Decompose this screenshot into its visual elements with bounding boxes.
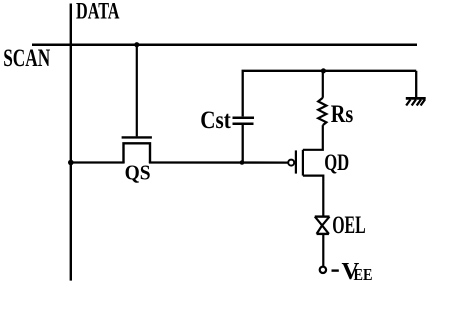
transistor QD gate bubble [288,160,294,166]
svg-text:QD: QD [324,150,349,175]
wire Cst top vertical and top rail to ground [243,71,417,117]
node junction DATA to row wire [68,160,74,166]
svg-text:DATA: DATA [76,0,120,24]
capacitor Cst top plate [233,116,255,119]
ground bar [406,97,426,100]
svg-text:OEL: OEL [332,210,366,239]
node VEE open terminal circle [320,267,326,273]
wire Rs bottom vertical to QD drain [303,125,323,150]
diode OEL lower triangle [317,225,329,234]
svg-text:Cst: Cst [200,107,231,134]
wire Cst bottom vertical [242,125,244,163]
transistor QD gate plate [295,150,297,173]
diode OEL top bar [315,215,330,217]
ground hatch marks [406,100,425,106]
wire row left (DATA to QS) [71,161,125,163]
wire SCAN horizontal line [32,43,417,46]
capacitor Cst bottom plate [233,122,254,125]
diode OEL bottom bar [317,233,329,235]
svg-text:Rs: Rs [331,101,354,128]
label minus sign of -VEE [332,269,339,271]
wire row right (QS to QD gate) [149,161,288,163]
wire QS gate vertical [136,45,138,137]
node junction Cst bottom tap [240,160,245,165]
diode OEL upper triangle [315,217,330,226]
svg-text:SCAN: SCAN [3,45,50,72]
svg-text:QS: QS [125,161,151,185]
transistor QD channel [302,150,304,176]
svg-text:EE: EE [354,265,373,284]
wire Rs top vertical [322,71,324,98]
ground wire vertical [415,71,417,98]
resistor Rs zigzag [318,98,326,125]
node junction Rs top tap [321,68,326,73]
wire DATA vertical line [70,4,72,281]
wire QD source horizontal and down [303,176,323,216]
transistor QS gate bar [122,136,152,138]
node junction on SCAN at QS gate [134,42,139,47]
wire OEL to VEE terminal [322,234,324,267]
transistor QS channel bridge [124,143,151,163]
